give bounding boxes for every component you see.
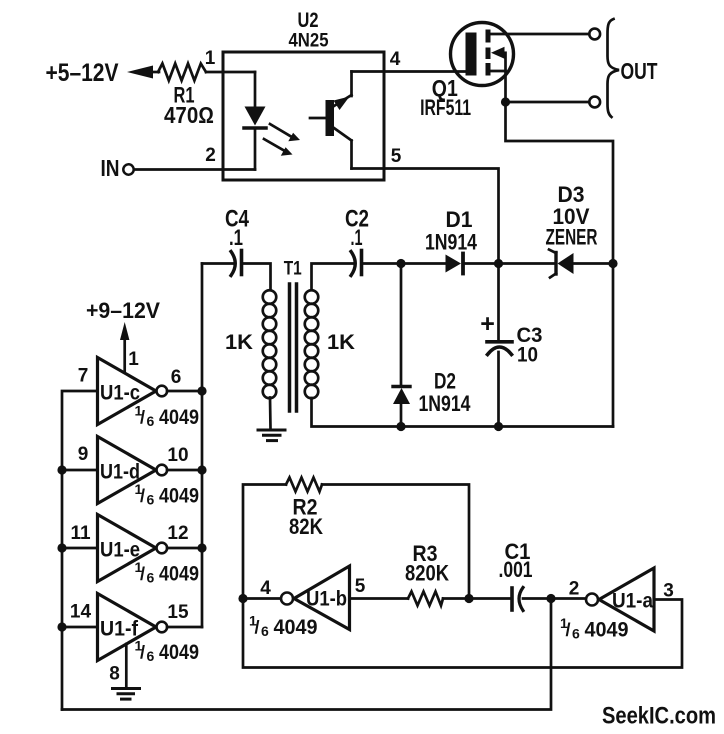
inverter U1-b — [281, 566, 350, 630]
svg-text:2: 2 — [205, 145, 216, 166]
svg-text:/: / — [566, 620, 571, 640]
svg-text:/: / — [140, 643, 145, 663]
capacitor C3 lead bottom — [497, 352, 500, 427]
wire R3 to node — [443, 597, 469, 600]
pin 9 label — [78, 444, 89, 465]
wire Q1 source to zener right rail — [506, 102, 614, 264]
pin 3 label (U1-a) — [663, 581, 674, 602]
wire D1 to C3 node — [463, 262, 499, 265]
svg-text:8: 8 — [109, 664, 120, 685]
wire U2 pin1 internal to LED anode — [254, 72, 257, 107]
pin 2 label (U1-a) — [569, 579, 580, 600]
inverter U1-d — [98, 437, 168, 504]
power label +9-12V — [86, 298, 160, 323]
pin 12 label — [167, 523, 188, 544]
svg-text:2: 2 — [569, 579, 580, 600]
power label +5-12V — [46, 59, 119, 87]
value IRF511 — [420, 95, 471, 120]
ground T1 primary — [258, 430, 285, 441]
inverter U1-e — [98, 515, 168, 582]
junction D2 branch node — [396, 259, 405, 268]
pin 1 label (U1 VCC) — [128, 349, 139, 370]
wire U1-b output pin 4 — [243, 597, 281, 600]
wire U2 pin 4 emitter to Q1 gate — [352, 70, 467, 73]
pin 7 label — [78, 366, 89, 387]
svg-text:4N25: 4N25 — [289, 31, 329, 52]
value 4N25 — [289, 31, 329, 52]
junction U1-b output node — [238, 594, 247, 603]
inverter U1-a — [586, 568, 654, 631]
svg-text:15: 15 — [167, 602, 189, 623]
wire zener to right rail — [574, 262, 614, 265]
wire U1-f input — [62, 626, 98, 629]
LED inside U2 — [244, 107, 266, 129]
svg-text:.001: .001 — [499, 557, 533, 582]
IN terminal circle — [123, 164, 133, 174]
wire IN to U2 pin 2 — [134, 168, 255, 171]
svg-text:1: 1 — [205, 48, 216, 69]
wire right rail down to bottom rail — [612, 264, 615, 427]
brace for OUT — [608, 19, 620, 117]
wire T1 secondary top to C2 — [312, 264, 355, 291]
label R2 — [293, 495, 318, 520]
IN terminal label — [101, 155, 120, 181]
value 1K secondary — [327, 331, 355, 354]
pin 5 label (U2) — [391, 146, 402, 167]
svg-text:14: 14 — [70, 602, 92, 623]
capacitor C4 — [231, 251, 242, 276]
wire C4 to T1 primary — [242, 264, 271, 291]
watermark SeekIC.com — [602, 703, 716, 730]
svg-text:6: 6 — [147, 413, 155, 429]
svg-text:+9–12V: +9–12V — [86, 298, 160, 323]
wire U1-e input — [62, 547, 98, 550]
wire R2 to R3 node — [322, 485, 469, 599]
label C1 — [505, 539, 531, 564]
svg-text:U1-f: U1-f — [100, 618, 139, 641]
label Q1 — [432, 75, 458, 101]
svg-text:/: / — [255, 618, 260, 638]
svg-text:6: 6 — [147, 570, 155, 586]
svg-text:4049: 4049 — [159, 641, 199, 664]
svg-text:1: 1 — [128, 349, 139, 370]
svg-text:/: / — [140, 486, 145, 506]
svg-text:OUT: OUT — [621, 58, 658, 84]
value 82K — [289, 514, 323, 539]
input distribution rail — [62, 391, 98, 710]
LED light arrow 1 — [270, 124, 300, 141]
label R3 — [413, 541, 438, 566]
svg-text:IRF511: IRF511 — [420, 95, 471, 120]
value 1K primary — [225, 331, 253, 354]
junction U1-f input — [57, 622, 66, 631]
wire T1 secondary bottom to bottom rail — [312, 398, 614, 427]
ground U1 pin 8 — [113, 689, 140, 700]
pin 5 label (U1-b) — [355, 576, 366, 597]
svg-text:4049: 4049 — [159, 406, 199, 429]
capacitor C3 — [487, 342, 512, 355]
label D3 — [558, 182, 585, 207]
svg-text:.1: .1 — [229, 225, 243, 250]
junction C3 bottom — [494, 422, 503, 431]
svg-text:4049: 4049 — [159, 563, 199, 586]
wire U1-d output to rail — [167, 469, 202, 472]
diode D1 — [446, 254, 464, 274]
plus sign C3 — [480, 310, 495, 338]
svg-text:4049: 4049 — [585, 619, 629, 642]
fraction 1/6 4049 (U1-e) — [135, 559, 200, 586]
svg-text:4049: 4049 — [159, 485, 199, 508]
svg-text:82K: 82K — [289, 514, 323, 539]
label D2 — [434, 369, 456, 394]
svg-text:6: 6 — [147, 648, 155, 664]
svg-text:6: 6 — [147, 492, 155, 508]
svg-text:4: 4 — [390, 49, 401, 70]
pin 10 label — [167, 445, 188, 466]
svg-text:11: 11 — [70, 523, 91, 544]
value 1N914 (D2) — [419, 391, 472, 416]
pin 15 label — [167, 602, 189, 623]
svg-text:U1-a: U1-a — [612, 590, 653, 613]
wire R1 to U2 pin 1 — [206, 71, 255, 74]
junction U1-c output — [197, 386, 206, 395]
value ZENER — [546, 225, 598, 250]
junction right rail at zener — [608, 259, 617, 268]
value 820K — [405, 561, 449, 586]
svg-text:U1-b: U1-b — [306, 588, 347, 611]
capacitor C1 — [512, 588, 523, 611]
wire T1 primary to ground — [269, 398, 272, 429]
OUT terminal top — [589, 29, 600, 40]
pin 8 label (U1 GND) — [109, 664, 120, 685]
svg-text:T1: T1 — [284, 259, 302, 280]
fraction 1/6 4049 (U1-a) — [560, 615, 629, 642]
svg-text:/: / — [140, 564, 145, 584]
fraction 1/6 4049 (U1-c) — [135, 403, 200, 430]
label C3 — [517, 324, 543, 347]
junction U1-d input — [57, 465, 66, 474]
phototransistor inside U2 — [310, 72, 352, 169]
junction D2 bottom — [396, 422, 405, 431]
junction U1-d output — [197, 465, 206, 474]
value .001 — [499, 557, 533, 582]
value .1 (C4) — [229, 225, 243, 250]
svg-text:7: 7 — [78, 366, 89, 387]
junction C1 / U1-a pin 2 node — [546, 594, 555, 603]
wire Q1 drain to OUT top terminal — [491, 33, 590, 36]
wire U1-b input pin 5 to R3 — [350, 597, 409, 600]
wire left rail to C4 — [202, 262, 234, 265]
wire node to zener D3 — [499, 262, 557, 265]
svg-text:U2: U2 — [298, 9, 319, 32]
wire U1-a input pin 3 to U1-b output — [243, 599, 682, 668]
oscillator output rail (inverter outputs to C4) — [201, 264, 204, 628]
svg-text:4: 4 — [260, 578, 271, 599]
wire source node to OUT bottom terminal — [506, 101, 590, 104]
svg-text:6: 6 — [572, 626, 580, 642]
wire D2 branch — [400, 264, 403, 386]
resistor R2 — [286, 478, 322, 492]
label T1 — [284, 259, 302, 280]
svg-text:9: 9 — [78, 444, 89, 465]
wire U1-f output to rail — [167, 626, 202, 629]
label U2 — [298, 9, 319, 32]
svg-text:820K: 820K — [405, 561, 449, 586]
junction R2/R3/C1 node — [464, 594, 473, 603]
svg-text:.1: .1 — [351, 225, 363, 250]
svg-text:IN: IN — [101, 155, 120, 181]
junction Q1 source node — [501, 97, 510, 106]
svg-text:6: 6 — [261, 623, 269, 639]
junction U1-e output — [197, 543, 206, 552]
label C4 — [225, 206, 250, 233]
optocoupler U2 package box — [223, 52, 384, 180]
svg-text:470Ω: 470Ω — [164, 102, 214, 128]
pin 6 label — [171, 367, 182, 388]
svg-text:SeekIC.com: SeekIC.com — [602, 703, 716, 730]
wire U1 pin 8 to ground — [125, 644, 128, 687]
svg-text:12: 12 — [167, 523, 188, 544]
svg-text:10: 10 — [517, 344, 538, 367]
transformer T1 secondary winding 1K — [305, 290, 319, 398]
wire node to U1-a pin 2 — [551, 597, 586, 600]
zener diode D3 — [549, 250, 574, 278]
wire U2 pin 5 collector to rectifier node — [352, 169, 499, 264]
LED light arrow 2 — [264, 139, 293, 156]
label OUT — [621, 58, 658, 84]
inverter U1-f — [98, 594, 168, 661]
svg-text:D1: D1 — [446, 207, 473, 232]
label C2 — [345, 206, 369, 233]
pin 4 label (U1-b) — [260, 578, 271, 599]
junction U1-e input — [57, 543, 66, 552]
fraction 1/6 4049 (U1-b) — [249, 613, 318, 640]
OUT terminal bottom — [589, 97, 600, 108]
pin 11 label — [70, 523, 91, 544]
wire U1-c output to rail — [167, 390, 202, 393]
svg-text:ZENER: ZENER — [546, 225, 598, 250]
value 470 ohm — [164, 102, 214, 128]
wire +5-12V arrow to R1 — [127, 66, 159, 79]
pin 4 label (U2) — [390, 49, 401, 70]
transformer T1 core — [290, 284, 297, 411]
junction C3 top node — [494, 259, 503, 268]
svg-text:1K: 1K — [225, 331, 253, 354]
wire D2 to bottom rail — [400, 404, 403, 427]
resistor R3 — [408, 592, 443, 606]
capacitor C2 — [351, 251, 362, 276]
wire U1-d input — [62, 469, 98, 472]
label R1 — [174, 83, 195, 108]
value .1 (C2) — [351, 225, 363, 250]
svg-text:U1-c: U1-c — [100, 382, 140, 405]
inverter U1-c — [98, 358, 168, 425]
value 1N914 (D1) — [425, 230, 478, 255]
bottom feedback wire to C1 node — [62, 599, 551, 710]
svg-text:5: 5 — [391, 146, 402, 167]
svg-text:4049: 4049 — [274, 616, 318, 639]
svg-text:+5–12V: +5–12V — [46, 59, 119, 87]
fraction 1/6 4049 (U1-d) — [135, 481, 200, 508]
wire C1 to U1-a node — [523, 597, 551, 600]
transformer T1 primary winding 1K — [263, 290, 277, 398]
pin 1 label (U2) — [205, 48, 216, 69]
wire node to C1 — [469, 597, 512, 600]
label D1 — [446, 207, 473, 232]
fraction 1/6 4049 (U1-f) — [135, 638, 200, 665]
svg-text:1N914: 1N914 — [419, 391, 472, 416]
power arrow to U1 pin 1 — [120, 322, 129, 374]
pin 14 label — [70, 602, 92, 623]
wire LED cathode to U2 pin 2 — [254, 128, 257, 170]
svg-text:6: 6 — [171, 367, 182, 388]
diode D2 — [393, 387, 410, 405]
value 10 (C3) — [517, 344, 538, 367]
MOSFET Q1 — [451, 23, 514, 103]
wire C2 to D1 — [362, 262, 446, 265]
capacitor C3 lead top — [497, 264, 500, 341]
wire U1-e output to rail — [167, 547, 202, 550]
svg-text:1N914: 1N914 — [425, 230, 478, 255]
pin 2 label (U2) — [205, 145, 216, 166]
svg-text:10: 10 — [167, 445, 188, 466]
svg-text:+: + — [480, 310, 495, 338]
svg-text:1K: 1K — [327, 331, 355, 354]
value 10V — [553, 204, 590, 229]
svg-text:/: / — [140, 408, 145, 428]
svg-text:D2: D2 — [434, 369, 456, 394]
wire U1-b output node to R2 — [243, 485, 286, 599]
resistor R1 — [158, 64, 206, 81]
svg-text:5: 5 — [355, 576, 366, 597]
